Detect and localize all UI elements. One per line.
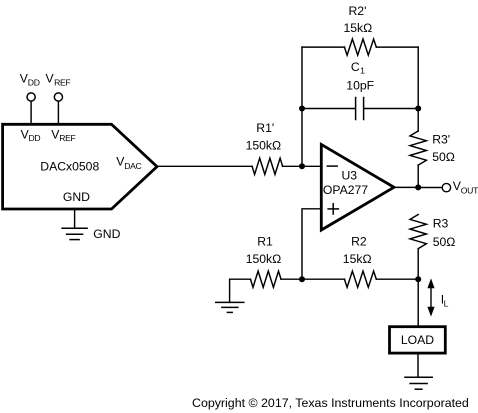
capacitor C1 [356, 98, 364, 120]
svg-text:10pF: 10pF [346, 78, 374, 92]
wire top feedback rail left [302, 46, 345, 48]
wire R3' to output node [417, 165, 419, 187]
ground (R1) [216, 301, 244, 303]
svg-text:OPA277: OPA277 [323, 183, 368, 197]
resistor R3' [410, 131, 426, 165]
svg-text:R3': R3' [432, 132, 450, 146]
wire VDAC output rail [157, 165, 252, 167]
ground (DAC) [62, 227, 87, 229]
wire VREF terminal to DAC [57, 101, 59, 123]
wire non-inverting input [302, 209, 321, 279]
wire output to VOUT terminal [418, 187, 442, 189]
svg-text:50Ω: 50Ω [432, 150, 455, 164]
op-amp U3 non-inverting input mark [328, 204, 338, 214]
svg-text:R1': R1' [256, 121, 274, 135]
svg-text:R2': R2' [349, 4, 367, 18]
node inverting input junction [299, 163, 305, 169]
DAC DACx0508 body [3, 124, 157, 209]
resistor R1' [252, 158, 283, 174]
wire op-amp output [394, 186, 418, 188]
wire DAC GND pin [74, 209, 76, 229]
node load junction [415, 276, 421, 282]
wire right vertical R2' to C1 [417, 47, 419, 108]
svg-text:DACx0508: DACx0508 [40, 159, 99, 173]
wire R3 to load node [417, 249, 419, 280]
ground (LOAD) [405, 376, 432, 378]
svg-text:GND: GND [63, 190, 90, 204]
wire R2 to load node [376, 278, 418, 280]
svg-text:50Ω: 50Ω [433, 235, 456, 249]
svg-text:150kΩ: 150kΩ [246, 138, 282, 152]
wire load node to LOAD [417, 279, 419, 327]
svg-text:15kΩ: 15kΩ [343, 252, 372, 266]
current arrow IL [427, 278, 434, 316]
node R1/R2 junction [299, 276, 305, 282]
op-amp U3 triangle [321, 144, 394, 230]
wire feedback vertical (left) [301, 47, 303, 166]
wire C1 to R3' [417, 109, 419, 132]
svg-text:Copyright © 2017, Texas Instru: Copyright © 2017, Texas Instruments Inco… [192, 396, 469, 410]
wire C1 left lead [302, 108, 355, 110]
load LOAD box [390, 327, 446, 353]
wire VDD terminal to DAC [30, 101, 32, 123]
resistor R1 [251, 271, 282, 287]
node C1 right junction [415, 106, 421, 112]
node output junction [415, 184, 421, 190]
node C1 left junction [299, 106, 305, 112]
resistor R3 [410, 215, 426, 249]
wire top feedback rail right [376, 46, 418, 48]
svg-text:15kΩ: 15kΩ [344, 21, 373, 35]
wire R1 left lead [230, 279, 251, 302]
pin VDD terminal circle [27, 93, 35, 101]
svg-text:GND: GND [93, 227, 120, 241]
wire R1' to inverting input [283, 165, 322, 167]
wire R1 to R2 [281, 278, 345, 280]
resistor R2 [344, 271, 376, 287]
svg-text:U3: U3 [342, 169, 358, 183]
resistor R2' [344, 39, 376, 55]
svg-text:LOAD: LOAD [401, 333, 434, 347]
wire C1 right lead [364, 108, 418, 110]
svg-text:R2: R2 [351, 234, 367, 248]
op-amp U3 inverting input mark [327, 165, 337, 167]
wire LOAD to ground [417, 354, 419, 377]
svg-text:150kΩ: 150kΩ [246, 252, 282, 266]
terminal VOUT circle [442, 183, 450, 191]
svg-text:R3: R3 [433, 217, 449, 231]
pin VREF terminal circle [54, 93, 62, 101]
svg-text:R1: R1 [257, 234, 273, 248]
